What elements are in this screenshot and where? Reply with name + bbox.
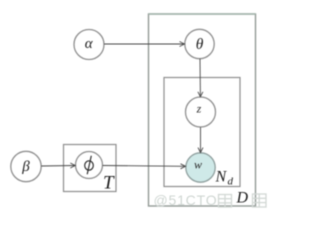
- arrow alpha->theta: [104, 42, 184, 47]
- label T: [103, 173, 115, 194]
- node phi: [76, 152, 103, 179]
- svg-text:β: β: [21, 159, 30, 175]
- svg-text:θ: θ: [196, 36, 204, 53]
- svg-text:T: T: [103, 173, 115, 194]
- plate N_d: [164, 78, 240, 187]
- plate T: [64, 145, 117, 192]
- label N_d: [215, 168, 234, 187]
- svg-text:D: D: [236, 189, 249, 206]
- svg-text:w: w: [194, 157, 202, 171]
- svg-text:α: α: [85, 36, 94, 52]
- svg-text:z: z: [196, 102, 202, 116]
- label D: [236, 189, 249, 206]
- watermark @51CTO博客: [154, 192, 267, 208]
- svg-text:N: N: [215, 168, 228, 185]
- node beta: [11, 151, 41, 181]
- arrow z->w: [198, 127, 203, 152]
- arrow beta->phi: [41, 163, 75, 168]
- svg-text:d: d: [228, 176, 234, 188]
- node z: [186, 97, 216, 127]
- arrow theta->z: [198, 59, 203, 97]
- plate D: [149, 14, 256, 206]
- node alpha: [74, 30, 104, 60]
- node w (observed, shaded): [186, 153, 215, 182]
- node theta: [185, 29, 214, 58]
- arrow phi->w: [103, 164, 186, 169]
- svg-text:@51CTO: @51CTO: [154, 192, 218, 208]
